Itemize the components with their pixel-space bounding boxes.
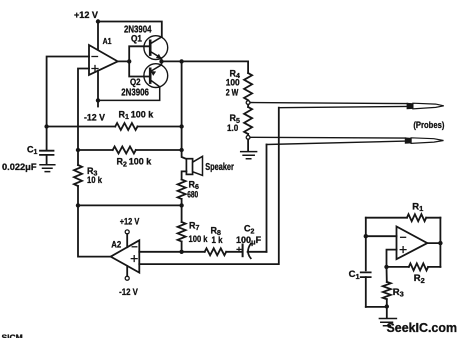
svg-text:Q1: Q1	[131, 34, 142, 44]
svg-text:R2 100 k: R2 100 k	[117, 157, 153, 169]
resistor R5 1.0	[227, 105, 252, 136]
probe 1 lead wires	[250, 103, 407, 108]
wire A1 non-inverting input down to R2 node	[78, 69, 89, 151]
inset capacitor C1	[349, 269, 371, 307]
wire left rail down to A2 output	[78, 205, 111, 256]
svg-text:Speaker: Speaker	[205, 162, 234, 173]
node junction dot +12V/A1	[96, 19, 100, 23]
svg-text:10 k: 10 k	[87, 175, 103, 185]
transistor Q2 2N3906 PNP	[98, 61, 168, 100]
inset node dot left rail	[364, 234, 368, 238]
node junction dot R2 right	[179, 148, 183, 152]
svg-text:2 W: 2 W	[226, 87, 239, 97]
inset wire inverting input	[366, 235, 397, 237]
power -12 V label (A1 supply)	[84, 113, 106, 124]
node junction dot left y205	[76, 203, 80, 207]
wire C2 up to probe 2 return	[266, 145, 268, 252]
ground below R5 (probe return)	[241, 139, 257, 159]
probe 2 lead wires	[250, 137, 406, 144]
resistor R6 680	[178, 180, 199, 206]
inset wire left rail	[365, 218, 367, 271]
op-amp A1	[89, 36, 118, 75]
node junction dot R1 right	[179, 124, 183, 128]
svg-text:SICM: SICM	[2, 333, 23, 338]
capacitor C2 100uF polarized	[236, 224, 267, 259]
watermark SeekIC.com	[387, 320, 458, 335]
svg-text:-12 V: -12 V	[119, 287, 138, 298]
inset bottom wire	[366, 306, 387, 308]
inset node dot bottom	[385, 304, 389, 308]
svg-text:100 k: 100 k	[189, 234, 209, 244]
node junction dot output rail top	[179, 59, 183, 63]
svg-text:-12 V: -12 V	[84, 113, 106, 124]
wire emitter junction to R4	[162, 61, 249, 73]
node junction dot R7 bottom	[179, 250, 183, 254]
svg-text:(Probes): (Probes)	[413, 120, 444, 131]
svg-text:1 k: 1 k	[212, 235, 224, 245]
svg-text:A1: A1	[103, 36, 112, 46]
inset resistor R3	[383, 267, 404, 307]
wire A2 non-inverting input up to probe 1 return	[139, 108, 278, 264]
node terminal circle R4/R5 junction	[246, 101, 250, 105]
node emitter junction dot	[159, 59, 163, 63]
resistor R3 10k	[74, 150, 103, 205]
svg-text:SeekIC.com: SeekIC.com	[387, 320, 458, 335]
inset resistor R1	[366, 201, 441, 221]
speaker	[182, 156, 234, 179]
wire A2 inverting input to R7 bottom node	[139, 251, 181, 253]
transistor Q1 2N3904 NPN	[124, 23, 168, 61]
wire R3 to R6/R7 junction	[78, 204, 182, 206]
inset node dot R2/R3/+input	[384, 265, 388, 269]
(Probes) label	[413, 120, 444, 131]
watermark fragment bottom-left	[2, 333, 23, 338]
svg-text:0.022μF: 0.022μF	[2, 162, 37, 173]
inset resistor R2	[387, 263, 441, 284]
svg-text:R1 100 k: R1 100 k	[119, 109, 155, 121]
inset wire output node	[427, 218, 440, 267]
node junction dot base node	[127, 59, 131, 63]
svg-text:+12 V: +12 V	[120, 216, 140, 226]
resistor R4 100 2W	[226, 68, 252, 100]
resistor R8 1k	[182, 226, 243, 256]
inset node dot output	[438, 241, 442, 245]
power -12 V label and pin (A2)	[119, 266, 138, 298]
wire A1 output to transistor bases	[118, 46, 151, 76]
wire A1 inverting input to left rail	[47, 57, 89, 150]
svg-text:+12 V: +12 V	[74, 10, 99, 21]
svg-text:A2: A2	[111, 239, 121, 250]
inset ground	[379, 307, 396, 326]
wire output rail down to speaker	[182, 61, 187, 159]
resistor R2 100k	[78, 147, 182, 169]
probe 1 tip	[407, 103, 444, 109]
op-amp A2 (points left)	[111, 239, 140, 272]
inset op-amp	[397, 227, 428, 260]
wire A1 V- pin to -12V node	[97, 71, 99, 107]
node terminal circle R5 bottom	[246, 136, 250, 140]
svg-text:680: 680	[187, 189, 198, 199]
inset wire non-inverting input	[387, 250, 397, 267]
svg-text:100: 100	[226, 78, 240, 88]
node junction dot A1 V- / Q2 collector	[96, 98, 100, 102]
svg-text:1.0: 1.0	[227, 123, 238, 133]
probe 2 tip	[405, 137, 444, 143]
power +12 V label (A1 supply)	[74, 10, 99, 21]
wire +12V rail from A1 V+ pin to Q1 collector	[98, 22, 162, 51]
node junction dot R2 left	[76, 148, 80, 152]
node junction dot R6/R7	[179, 203, 183, 207]
svg-text:2N3906: 2N3906	[121, 86, 149, 98]
ground below C1	[40, 165, 55, 172]
power +12 V label and pin (A2)	[120, 216, 140, 247]
resistor R7 100k	[178, 205, 209, 251]
capacitor C1 0.022uF	[2, 144, 54, 173]
node junction dot R1 left	[44, 124, 48, 128]
resistor R1 100k	[47, 109, 182, 130]
